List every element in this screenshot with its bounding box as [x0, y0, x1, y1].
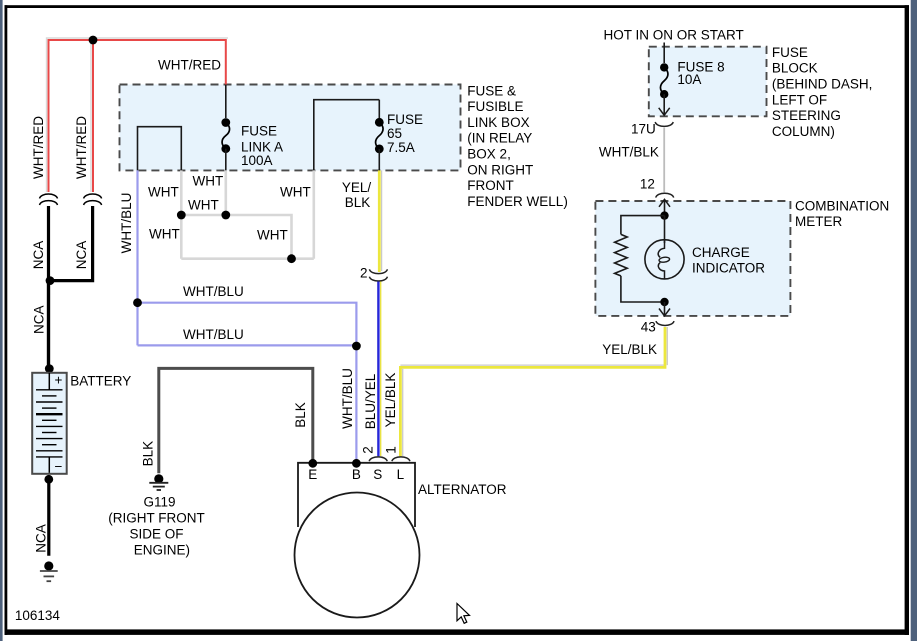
svg-text:WHT/BLK: WHT/BLK: [599, 145, 659, 160]
window sidebar right: [911, 0, 917, 641]
wire NCA right vertical + elbow to junction: [50, 206, 94, 281]
svg-text:BLK: BLK: [345, 195, 371, 210]
svg-text:SIDE OF: SIDE OF: [129, 526, 183, 541]
svg-text:WHT: WHT: [280, 185, 311, 200]
svg-text:WHT/BLU: WHT/BLU: [183, 327, 244, 342]
svg-text:NCA: NCA: [74, 241, 89, 270]
node dot at battery positive: [45, 364, 54, 373]
wire break symbol left WHT/RED to NCA: [40, 194, 58, 205]
svg-text:BATTERY: BATTERY: [70, 374, 131, 389]
alternator terminal box: [298, 463, 415, 527]
fusible link A feed (black inside box): [225, 85, 227, 119]
svg-text:10A: 10A: [677, 72, 701, 87]
svg-text:WHT/RED: WHT/RED: [31, 116, 46, 179]
page border frame left: [5, 5, 8, 635]
node WHT/BLU junction dots: [133, 298, 142, 307]
ground node dot G119: [154, 474, 163, 483]
wire BLK from G119 riser and run to alternator E: [159, 368, 313, 473]
svg-text:(IN RELAY: (IN RELAY: [467, 131, 532, 146]
svg-text:BLOCK: BLOCK: [772, 61, 818, 76]
svg-text:B: B: [352, 467, 361, 482]
connector dome at L terminal: [392, 457, 410, 461]
svg-text:2: 2: [361, 446, 376, 454]
svg-text:WHT/BLU: WHT/BLU: [183, 284, 244, 299]
svg-text:FRONT: FRONT: [467, 178, 514, 193]
svg-text:NCA: NCA: [34, 524, 49, 553]
page border frame top: [5, 5, 910, 8]
svg-text:STEERING: STEERING: [772, 108, 841, 123]
svg-text:LEFT OF: LEFT OF: [772, 92, 827, 107]
wire WHT from link A compartment down: [180, 170, 183, 258]
charge indicator lamp: [645, 240, 684, 279]
node dot alternator E: [308, 459, 317, 468]
wire BLU/YEL yellow stripe: [380, 282, 382, 457]
svg-text:FUSE &: FUSE &: [467, 83, 516, 98]
svg-text:NCA: NCA: [31, 241, 46, 270]
resistor branch bottom run: [621, 276, 665, 302]
wire WHT/RED red branch at junction: [92, 40, 94, 192]
svg-text:WHT: WHT: [149, 227, 180, 242]
svg-text:12: 12: [640, 177, 655, 192]
svg-text:65: 65: [387, 126, 402, 141]
svg-text:(BEHIND DASH,: (BEHIND DASH,: [772, 77, 873, 92]
fuse 8 element: [660, 63, 668, 71]
svg-text:(RIGHT FRONT: (RIGHT FRONT: [108, 511, 205, 526]
ground symbol bottom-left: [40, 571, 58, 581]
battery bottom plate stub: [48, 457, 50, 473]
connector 2 break symbol (two cups): [369, 269, 387, 281]
svg-text:G119: G119: [143, 495, 175, 510]
svg-text:FUSE: FUSE: [772, 45, 808, 60]
resistor zigzag: [615, 234, 628, 276]
ground node dot bottom-left: [44, 561, 53, 570]
resistor branch top run: [621, 216, 665, 235]
svg-text:106134: 106134: [15, 608, 61, 623]
svg-text:−: −: [55, 459, 63, 474]
svg-text:BLK: BLK: [141, 441, 156, 467]
svg-text:COLUMN): COLUMN): [772, 124, 835, 139]
fuse link A compartment rectangle: [138, 127, 182, 171]
svg-text:2: 2: [360, 266, 368, 281]
svg-text:INDICATOR: INDICATOR: [692, 261, 765, 276]
wire WHT upper run with right drop: [181, 215, 291, 259]
fuse 65 lower lead: [378, 149, 380, 171]
node junction dot on WHT/RED: [89, 36, 98, 45]
svg-text:ALTERNATOR: ALTERNATOR: [418, 482, 507, 497]
fusible link A lower lead: [225, 149, 227, 171]
fusible link A element: [221, 118, 230, 127]
wire BLU/YEL to alternator S: [377, 282, 379, 457]
page border frame right: [905, 5, 909, 635]
HOT feed stub into fuse block: [663, 43, 665, 64]
connector 12 dome: [656, 193, 674, 197]
svg-text:YEL/BLK: YEL/BLK: [602, 342, 657, 357]
window sidebar left: [0, 0, 3, 641]
wire WHT/RED casing (gray): [47, 38, 229, 192]
fuse 65 element: [375, 118, 384, 127]
fuse & fusible link box (dashed, blue fill): [120, 85, 461, 171]
battery top plate stub: [48, 373, 50, 390]
wire WHT/BLU main vertical: [136, 170, 138, 345]
wire WHT from fuse link A down: [225, 170, 228, 215]
svg-text:LINK BOX: LINK BOX: [467, 115, 529, 130]
node dot combination meter bottom: [660, 298, 668, 306]
wire YEL/BLK from meter to alternator L: [400, 327, 665, 456]
node junction dot NCA: [46, 276, 55, 285]
svg-text:BLU/YEL: BLU/YEL: [363, 373, 378, 429]
fuse 65 top feed wire: [378, 100, 380, 119]
wire YEL/BLK below fuse 65: [378, 170, 381, 272]
fuse 8 lower lead with arrow out of fuse block: [663, 94, 665, 114]
wire NCA left vertical (black): [47, 206, 50, 368]
svg-text:YEL/: YEL/: [342, 180, 372, 195]
svg-text:1: 1: [384, 446, 399, 454]
battery body: [32, 373, 66, 474]
svg-text:METER: METER: [795, 214, 843, 229]
svg-text:43: 43: [641, 320, 656, 335]
alternator body circle: [295, 493, 420, 618]
svg-text:YEL/BLK: YEL/BLK: [383, 373, 398, 428]
ground symbol G119: [149, 483, 168, 490]
wire NCA battery feed: [47, 281, 50, 370]
node dot alternator B: [352, 459, 361, 468]
battery plates: [36, 390, 63, 457]
svg-text:CHARGE: CHARGE: [692, 245, 750, 260]
svg-text:WHT/RED: WHT/RED: [74, 116, 89, 179]
svg-text:BOX 2,: BOX 2,: [467, 147, 511, 162]
svg-text:COMBINATION: COMBINATION: [795, 198, 889, 213]
wire WHT/BLU upper run to right drop: [138, 303, 357, 346]
wire WHT/RED red: left drop, top run, into fuse box: [49, 40, 226, 192]
wire YEL/BLK stripe on L drop: [402, 369, 404, 456]
wire WHT/BLU lower run: [138, 344, 357, 346]
page border frame bottom: [5, 629, 910, 635]
wire WHT lower run: [181, 257, 313, 260]
svg-text:S: S: [373, 467, 382, 482]
svg-text:WHT: WHT: [148, 185, 179, 200]
svg-text:WHT/BLU: WHT/BLU: [119, 193, 134, 254]
wire lamp feed: [664, 216, 666, 243]
svg-text:FUSE: FUSE: [387, 112, 423, 127]
svg-text:WHT: WHT: [193, 174, 224, 189]
connector 43 cup: [656, 321, 674, 325]
node WHT junction dots: [177, 211, 186, 220]
svg-text:7.5A: 7.5A: [387, 140, 415, 155]
wire YEL/BLK casing below fuse 65: [381, 170, 383, 271]
wire lamp to output arrow: [664, 302, 666, 316]
svg-text:WHT/BLU: WHT/BLU: [340, 368, 355, 429]
svg-text:ON RIGHT: ON RIGHT: [467, 162, 533, 177]
wire NCA below battery: [47, 479, 50, 556]
wire WHT/BLU drop to alternator B: [355, 345, 357, 461]
mouse cursor: [457, 604, 470, 624]
arrow into combination meter: [664, 199, 666, 215]
combination meter box (dashed, blue fill): [595, 201, 790, 316]
svg-text:HOT IN ON OR START: HOT IN ON OR START: [604, 28, 744, 43]
wire YEL/BLK casing from meter to alternator L: [400, 327, 667, 365]
svg-text:FENDER WELL): FENDER WELL): [467, 194, 568, 209]
wire WHT/BLK vertical: [663, 128, 665, 193]
node dot combination meter top: [660, 211, 668, 219]
svg-text:FUSE: FUSE: [241, 124, 277, 139]
connector 17U cup: [655, 122, 673, 126]
svg-text:WHT: WHT: [188, 198, 219, 213]
svg-text:FUSIBLE: FUSIBLE: [467, 99, 523, 114]
fuse block box (dashed, blue fill): [649, 47, 767, 117]
svg-text:17U: 17U: [631, 122, 656, 137]
node dot at battery negative: [44, 475, 53, 484]
svg-text:NCA: NCA: [32, 306, 47, 335]
svg-text:WHT/RED: WHT/RED: [158, 58, 221, 73]
connector dome at S terminal: [369, 457, 387, 461]
wire break symbol right WHT/RED to NCA: [84, 194, 102, 205]
svg-text:100A: 100A: [241, 153, 273, 168]
fuse 65 compartment rectangle: [314, 100, 380, 171]
svg-text:ENGINE): ENGINE): [134, 543, 190, 558]
wire WHT right riser to fuse 65 compartment: [312, 170, 315, 258]
svg-text:WHT: WHT: [257, 228, 288, 243]
svg-text:+: +: [55, 373, 63, 388]
svg-text:L: L: [397, 467, 405, 482]
svg-text:BLK: BLK: [293, 402, 308, 428]
svg-text:E: E: [308, 467, 317, 482]
